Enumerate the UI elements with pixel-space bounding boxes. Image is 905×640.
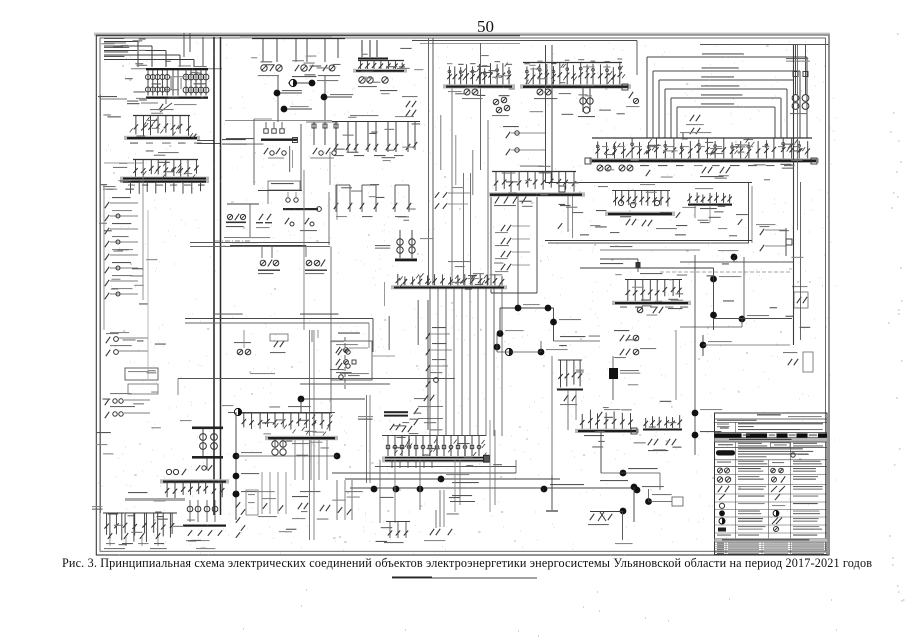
wire junction routes: [500, 307, 554, 309]
line loop group: [647, 56, 807, 58]
wire route y242-246: [190, 242, 330, 244]
taps with dashes M: [506, 132, 510, 138]
legend header row: [757, 414, 781, 415]
wire route y466: [375, 466, 516, 468]
junction dot AE2: [634, 487, 641, 494]
transformers below bus G: [597, 165, 603, 171]
loop inner taps: [690, 115, 694, 121]
breaker group B2: [295, 65, 299, 71]
left chain mid section: [106, 337, 110, 343]
ring dashdot: [215, 240, 252, 242]
transformer block Z: [192, 427, 223, 430]
ring long route y245: [230, 245, 306, 247]
wire horizontal y272 dashed: [660, 271, 790, 273]
junction dot R1: [731, 254, 738, 261]
feeder ring R: [490, 197, 492, 293]
wire horizontal y268: [580, 267, 714, 269]
gray band under Y: [125, 498, 185, 501]
junction dot U2: [545, 305, 552, 312]
bus UTEC double busbar: [382, 456, 486, 462]
bus PS top-left lower: [146, 97, 208, 99]
junction dot W1: [438, 476, 445, 483]
taps above X cluster: [237, 349, 243, 355]
legend sym r6: [719, 510, 725, 516]
wire vertical x236 with dots: [235, 412, 237, 520]
legend sym r4: [719, 494, 725, 500]
ring taps below busbar: [285, 218, 289, 224]
legend sym r9: [717, 535, 731, 536]
disconnector with arrow: [159, 104, 163, 110]
wire vertical x480: [480, 43, 482, 170]
legend row dash symbol: [718, 444, 733, 446]
bus small right of AE: [645, 418, 647, 428]
bus G2 inside box: [689, 193, 691, 203]
bays right of UGES: [306, 121, 338, 123]
bus PS mid-top: [448, 66, 450, 85]
scan flecks: [99, 42, 811, 542]
bus G1 inside box: [612, 190, 670, 192]
bus PS right-mid: [625, 279, 682, 281]
wire vertical pair x366: [366, 395, 368, 483]
bus PS hatched: [133, 159, 198, 161]
wire route y412: [228, 412, 335, 414]
taps bottom x430: [430, 529, 434, 535]
wire trunk right x800: [800, 182, 802, 340]
wire y345 right: [703, 344, 790, 346]
junction dot R2: [710, 276, 717, 283]
wire bottom right verticals: [659, 473, 661, 490]
vertical labels mid trunk: [440, 115, 441, 170]
junction dot B3: [321, 94, 328, 101]
ring busbar: [286, 198, 290, 202]
feeders W: [387, 436, 389, 457]
incoming line stubs: [104, 41, 138, 43]
ticks below W: [391, 460, 393, 468]
legend table: [715, 413, 828, 555]
ground tap T1: [551, 475, 553, 510]
caption underline: [392, 577, 537, 579]
junction dot X2: [233, 473, 240, 480]
wire verticals bottom-left bundle: [336, 480, 338, 520]
lambda pair above Y bus: [196, 465, 200, 471]
wire vertical x304: [303, 170, 305, 330]
ring rail: [227, 203, 259, 205]
plant box UTEC: [545, 182, 752, 184]
junction dot BM2: [645, 498, 652, 505]
junction dot BM3: [620, 508, 627, 515]
wire horizontal y262: [680, 261, 794, 263]
left chain lower taps: [105, 399, 109, 405]
bus PS right-lower: [551, 356, 553, 475]
transformer circles C: [359, 77, 365, 83]
black transformer square: [609, 368, 618, 379]
taps bottom x297: [298, 503, 302, 509]
junction dot U5: [494, 344, 501, 351]
wire vertical pair x545: [545, 45, 547, 182]
junction dot X4: [334, 453, 341, 460]
disconnector row M: [495, 197, 499, 204]
wire top rail: [412, 40, 637, 42]
bus PS Veshkayma: [492, 171, 576, 173]
scan speckles: [97, 40, 837, 555]
junction dot B2: [274, 90, 281, 97]
left chain taps: [98, 96, 117, 97]
junction dot R3: [710, 312, 717, 319]
bus feeder row K upper: [332, 121, 420, 123]
junction dot W2: [371, 486, 378, 493]
breaker pair L: [406, 101, 410, 107]
middle feeders with vertical labels: [172, 70, 174, 96]
taps near trunk end: [236, 502, 240, 508]
box O interior texture: [560, 205, 570, 206]
taps below UGES: [264, 148, 268, 154]
wire route y473: [332, 472, 516, 474]
wire route y120: [225, 120, 332, 122]
legend black year bar: [715, 433, 828, 437]
bus PS lower-left2: [166, 469, 171, 474]
ring group 1: [227, 214, 232, 219]
junction dot right col2: [692, 410, 699, 417]
junction dot right col1: [700, 342, 707, 349]
transformer circles mid x500: [493, 99, 499, 105]
legend sym r1: [718, 468, 723, 473]
wire route y479 with dot: [345, 478, 560, 480]
wire left links: [142, 160, 144, 300]
bus bottom x385: [386, 521, 410, 523]
wire trunk pair vertical: [213, 37, 215, 515]
legend small rows: [715, 543, 828, 545]
bus UTEC-1: [448, 261, 470, 262]
legend sym r2: [717, 477, 722, 482]
legend section header: [715, 438, 828, 442]
junction dot B4: [281, 106, 288, 113]
legend symbol rows: [715, 474, 828, 476]
wire vertical pair x568 below M: [567, 196, 569, 232]
tap left of X: [234, 408, 241, 415]
wire vertical x695: [694, 255, 696, 455]
junction dot U6: [538, 349, 545, 356]
wire route y399: [301, 398, 365, 400]
transformer circles group 2: [185, 70, 187, 96]
junction dot X1: [233, 453, 240, 460]
box below UGES: [268, 181, 300, 190]
taps top AE: [620, 335, 624, 341]
transformer unit S: [399, 230, 401, 258]
generator circles X: [272, 441, 278, 447]
junction dot right col3: [692, 432, 699, 439]
wire vertical pair x309-314: [309, 330, 311, 540]
box center-left with taps: [331, 341, 372, 380]
bus PS bottom-left: [103, 512, 177, 514]
bus UTEC lower rail: [382, 435, 486, 437]
labels row bottom: [256, 491, 275, 492]
bus PS bottom-right-mid: [581, 414, 583, 430]
transformer circles E2: [582, 88, 584, 112]
wire route y378: [178, 378, 455, 380]
route labels y141: [222, 139, 246, 140]
Gimovo tap: [127, 101, 138, 102]
generator circles: [618, 200, 623, 205]
wire routes right from busbar: [197, 140, 214, 142]
disconnector row BM: [590, 514, 594, 520]
plant block UGES: [253, 119, 255, 185]
transformer circles D: [464, 89, 470, 95]
page edge speckles: [243, 34, 905, 636]
ring group 3: [261, 246, 263, 259]
wire trunk right x797: [797, 45, 799, 230]
ring group 2: [259, 214, 263, 220]
legend sym r8: [718, 528, 726, 532]
ring rail top: [258, 190, 302, 192]
breaker lambda E: [629, 92, 633, 98]
taps right AG: [788, 359, 792, 365]
taps Q: [760, 229, 764, 235]
junction dot U1: [515, 305, 522, 312]
legend section2 header: [715, 539, 828, 543]
vertical text labels: [389, 316, 390, 350]
drawing frame: [96, 35, 829, 555]
chain x345: [338, 333, 360, 334]
junction dot BM1: [631, 484, 638, 491]
junction half dot: [289, 79, 296, 86]
legend sym r5: [719, 503, 724, 508]
bus PS row-B left: [133, 115, 190, 117]
wire feeder bundle below T: [429, 289, 431, 437]
vertical label UGES: [289, 146, 290, 172]
bus PS center-left: [238, 412, 332, 414]
loop feeder drops: [646, 133, 648, 138]
wire vertical pair x463 upper: [463, 173, 465, 285]
junction dot U3: [550, 319, 557, 326]
taps Q2: [797, 297, 801, 303]
ring network with junctions: [277, 76, 279, 122]
junction dot U4: [497, 330, 504, 337]
taps below right-mid bus: [637, 307, 643, 313]
PS right-top transformers: [795, 45, 797, 95]
wire vertical trunk x428: [428, 38, 430, 285]
junction dot W4: [417, 486, 424, 493]
svg-text:Рис. 3. Принципиальная схема э: Рис. 3. Принципиальная схема электрическ…: [62, 556, 872, 570]
junction dot B1: [309, 80, 316, 87]
bus PS bottom-mid: [187, 506, 193, 512]
bus PS top-left 110kV: [146, 68, 208, 70]
legend sym r7: [719, 518, 725, 524]
wire double route y318: [185, 318, 373, 320]
wire top right rail: [700, 44, 829, 46]
junction dot X0: [298, 396, 305, 403]
junction dot X3: [233, 491, 240, 498]
transformer circles E1: [537, 89, 543, 95]
legend row black blob: [716, 450, 735, 455]
feeders below X: [294, 439, 296, 480]
bay row K lower: [336, 184, 350, 186]
junction dot W5: [541, 486, 548, 493]
junction dot Y1: [233, 491, 240, 498]
junction dot AE1: [620, 470, 627, 477]
bus rail top second: [240, 36, 332, 39]
legend row obozn: [717, 462, 731, 463]
wire route y488 with dots: [350, 487, 633, 489]
legend sym r3: [718, 486, 722, 492]
legend note rows: [717, 424, 729, 425]
bus 110kV long right: [592, 137, 812, 139]
route y250 and corner: [600, 249, 700, 251]
wire route y501: [450, 501, 475, 503]
breaker group B3: [323, 65, 327, 71]
wire left feeder: [100, 95, 102, 513]
wire vertical x452: [451, 88, 453, 285]
chain taps center: [427, 300, 429, 430]
junction dot W3: [393, 486, 400, 493]
bus UGES: [264, 129, 268, 133]
extra feeders AA: [109, 513, 111, 538]
junction dot R4: [739, 316, 746, 323]
extra tick texture: [688, 155, 691, 159]
wire vertical x744: [743, 257, 745, 319]
left boxes: [125, 368, 158, 380]
more bottom-left texture: [261, 472, 263, 514]
feeder drops cluster B: [262, 39, 264, 62]
wire trunk right x793: [793, 45, 795, 345]
ring right vertical: [328, 192, 330, 245]
taps lambda right: [646, 170, 650, 176]
taps below G1 busbar: [626, 219, 630, 225]
tap rows left of bus M: [435, 192, 439, 198]
transformer circles group 1: [147, 70, 149, 96]
breaker group B1: [261, 65, 267, 71]
wire right column verticals: [675, 330, 677, 400]
bus PS x360: [361, 40, 363, 57]
scattered labels: [152, 83, 161, 84]
bus PS Zavolzhskaya: [523, 62, 622, 64]
items above W: [384, 411, 408, 413]
ring group 4: [306, 260, 312, 266]
